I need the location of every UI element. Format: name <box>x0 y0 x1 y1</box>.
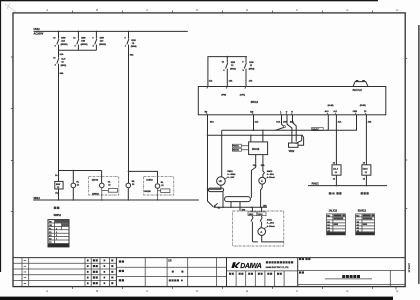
svg-text:1ALX12: 1ALX12 <box>329 210 338 213</box>
svg-text:VR12: VR12 <box>289 151 295 153</box>
mid section columns <box>145 258 216 287</box>
svg-text:52W: 52W <box>249 62 253 64</box>
lamp RL <box>71 183 76 188</box>
contact 52W12B <box>73 31 88 50</box>
svg-text:69A: 69A <box>60 72 64 75</box>
dash box ammeter section <box>233 211 284 246</box>
pointer AM12 <box>265 178 266 179</box>
svg-text:NO: NO <box>356 216 359 218</box>
wire loop2 left down <box>230 202 232 208</box>
wire contact bottoms rail <box>59 49 97 51</box>
rail N241C <box>222 115 357 131</box>
node bus-52W12B <box>78 31 80 33</box>
wire H stub <box>293 115 297 142</box>
svg-text:21A: 21A <box>255 121 259 124</box>
wire branch to box2 <box>129 171 158 183</box>
wire loop1 right down <box>222 192 224 208</box>
svg-text:(1): (1) <box>55 193 58 195</box>
node g3 <box>239 207 241 209</box>
svg-text:(W203): (W203) <box>99 44 106 46</box>
terminal table 52AX12 <box>356 214 375 235</box>
sign cell kanji heads <box>229 273 282 275</box>
svg-text:4–20mA: 4–20mA <box>267 225 275 228</box>
contact 52W12 CF1 <box>242 57 254 87</box>
contact ax2 <box>260 216 262 226</box>
wires tags to ISO12 <box>241 146 248 150</box>
meter FM12 feed <box>221 130 223 176</box>
wire VR12 right hook <box>298 135 304 145</box>
node g5 <box>260 207 262 209</box>
svg-text:P241C: P241C <box>312 182 319 185</box>
svg-text:C: C <box>146 289 148 293</box>
node P241C relay2 <box>366 185 368 187</box>
svg-text:H: H <box>396 289 398 293</box>
wire AM drop <box>253 115 255 131</box>
svg-text:N241C: N241C <box>233 149 240 152</box>
right section label <box>299 258 310 260</box>
wire AL0 drop <box>327 115 329 131</box>
right lower label <box>299 271 304 273</box>
isolator ISO12 <box>249 142 268 155</box>
svg-text:52W12: 52W12 <box>54 215 62 217</box>
node N012 RL2 <box>157 199 159 201</box>
meter AX2L <box>258 228 266 236</box>
grid ticks top <box>73 11 373 13</box>
svg-text:N012B: N012B <box>144 191 151 193</box>
right section divider <box>297 258 299 287</box>
revision table columns <box>22 258 110 287</box>
relay 1ALX12 <box>332 165 341 175</box>
revision table rows <box>13 263 116 280</box>
wire WL to N012 <box>127 188 129 200</box>
drawing title kanji <box>342 275 360 278</box>
svg-text:52W: 52W <box>61 38 65 40</box>
terminal table 1ALX12 <box>327 214 346 235</box>
tag 2801 <box>257 212 266 216</box>
svg-text:52AX12: 52AX12 <box>358 210 367 213</box>
wire coil to N012 <box>58 189 60 200</box>
svg-text:ISO12: ISO12 <box>252 147 260 151</box>
revision date dots <box>104 260 106 285</box>
svg-text:(RUN): (RUN) <box>360 105 366 107</box>
terminal circle L <box>283 126 285 128</box>
svg-text:11A: 11A <box>209 79 213 82</box>
mid stamp dots <box>172 271 184 273</box>
rail ground <box>214 206 267 208</box>
loop jumper 1 <box>208 188 223 192</box>
svg-text:INV12: INV12 <box>251 100 259 104</box>
svg-text:U012: U012 <box>34 27 41 31</box>
inverter INV12 <box>198 87 385 115</box>
grid ticks right <box>405 59 407 209</box>
bus U012 <box>34 30 188 32</box>
dashed box D12 <box>89 177 119 195</box>
node bus-52W12 <box>128 31 130 33</box>
drawing title underline <box>325 278 372 280</box>
node FM12 E0 <box>207 188 209 190</box>
tag 4801 <box>248 212 257 216</box>
svg-text:41A: 41A <box>338 120 342 123</box>
svg-text:(FW): (FW) <box>221 94 226 96</box>
node AL0 rail <box>326 130 328 132</box>
node bus-52W12C <box>96 31 98 33</box>
revision dash marks <box>24 260 27 284</box>
wire 51A run <box>263 155 265 178</box>
pin marks INV top <box>207 87 246 89</box>
svg-text:D: D <box>196 289 198 293</box>
svg-text:(W04): (W04) <box>249 67 255 70</box>
tag P241C iso <box>232 144 241 147</box>
svg-text:(W203): (W203) <box>61 44 68 46</box>
svg-text:P241C: P241C <box>233 145 240 148</box>
svg-text:12B: 12B <box>81 41 85 43</box>
loop jumper 2 <box>225 197 251 202</box>
wiper VR12 <box>295 141 301 144</box>
svg-text:(ALM): (ALM) <box>328 104 334 107</box>
scan edge right <box>418 25 419 284</box>
mid kanji label 1 <box>119 260 124 262</box>
svg-text:12C: 12C <box>100 41 104 43</box>
wire ax into meter <box>260 225 263 228</box>
wire GL drop <box>101 171 103 184</box>
node N012 WL <box>128 199 130 201</box>
tag N241C <box>312 128 324 131</box>
svg-text:AX2L: AX2L <box>267 218 273 221</box>
rail P241C <box>308 185 387 187</box>
label untenchuu <box>361 192 369 194</box>
node E0 rail <box>207 134 209 136</box>
node branch RL <box>73 170 75 172</box>
svg-text:14A: 14A <box>249 79 253 82</box>
svg-text:(W61): (W61) <box>61 65 67 67</box>
contact 52W12 (W04) <box>125 31 137 52</box>
resistor box2 <box>161 189 170 193</box>
lamp GL <box>100 183 105 188</box>
svg-text:52W: 52W <box>56 184 60 186</box>
node g1 <box>222 207 224 209</box>
svg-text:A: A <box>261 179 263 183</box>
contact ALX12 <box>53 50 66 67</box>
company kanji line <box>266 261 293 263</box>
scan edge top <box>0 0 378 1</box>
wire lamp branch rail <box>59 170 102 172</box>
scan edge bottom <box>0 297 393 300</box>
wire meter bottom out <box>262 235 284 242</box>
svg-text:N241C: N241C <box>312 128 319 131</box>
wire ISO pin1 up <box>250 135 252 142</box>
revision dot marks <box>87 260 89 285</box>
node g2 <box>230 207 232 209</box>
label unten <box>54 207 60 210</box>
wire relay1 to P241C <box>335 175 337 185</box>
Daiwa logo mark <box>231 262 240 268</box>
relay 52AX12 <box>362 165 371 175</box>
lamp RL wire <box>72 171 74 201</box>
svg-text:F: F <box>296 289 298 293</box>
wire 10 drop <box>365 115 367 165</box>
svg-text:C: C <box>146 8 148 12</box>
revision kanji marks <box>93 259 98 284</box>
svg-text:AM12: AM12 <box>267 170 273 173</box>
svg-text:NO: NO <box>327 216 330 218</box>
svg-text:12A: 12A <box>61 40 65 43</box>
svg-text:52W: 52W <box>231 62 235 64</box>
svg-text:(W04): (W04) <box>131 45 137 48</box>
svg-text:E: E <box>246 8 248 12</box>
resistor box1 <box>108 189 117 193</box>
wire L diag to rail <box>275 128 283 131</box>
wire AL1 drop <box>335 115 337 165</box>
grid ticks bottom <box>73 287 397 290</box>
svg-text:43A: 43A <box>368 120 372 123</box>
svg-text:0—50Hz: 0—50Hz <box>227 174 235 176</box>
node bus-52W12A <box>58 31 60 33</box>
node N012 coil <box>58 199 60 201</box>
rail N012 <box>33 199 199 201</box>
wire coil drop <box>58 171 60 182</box>
wire WL drop <box>128 52 130 183</box>
title block top <box>13 257 405 259</box>
svg-text:AM: AM <box>250 111 254 114</box>
wire E0 drop <box>208 115 214 207</box>
mid bottom stamp row <box>169 279 183 281</box>
mid section divider <box>115 258 117 287</box>
right bottom line <box>298 283 405 285</box>
coil 52W12 <box>55 181 63 189</box>
pointer AX2L <box>264 227 266 229</box>
meter AM12 <box>259 177 266 184</box>
lamp RL2 <box>155 184 160 189</box>
potentiometer VR12 <box>289 143 299 147</box>
svg-text:FM12: FM12 <box>227 171 233 173</box>
svg-text:52W12: 52W12 <box>92 193 99 195</box>
svg-text:(1)D12: (1)D12 <box>92 180 99 182</box>
wire lamp-resistor <box>102 188 109 200</box>
svg-text:H: H <box>396 8 398 12</box>
svg-text:E: E <box>246 289 248 293</box>
svg-text:D: D <box>196 8 198 12</box>
node ISO pin1 <box>250 134 252 136</box>
svg-text:13A: 13A <box>229 79 233 82</box>
contact 52W12 CF <box>222 57 236 87</box>
scan edge left <box>0 0 1 272</box>
svg-text:1ALX: 1ALX <box>333 167 339 170</box>
svg-text:1AB12: 1AB12 <box>146 179 153 182</box>
svg-text:A: A <box>46 289 48 293</box>
dashed box 1AB12 <box>144 177 174 195</box>
svg-text:15B: 15B <box>263 206 267 208</box>
lamp WL <box>126 183 131 188</box>
svg-text:B: B <box>96 8 98 12</box>
wire L to terminal <box>282 115 284 126</box>
svg-text:NV: NV <box>332 193 336 196</box>
scan noise top-left <box>5 3 16 12</box>
wire FM12 return <box>208 185 221 189</box>
node ISO pin2 <box>262 130 264 132</box>
wire ISO pin2 up <box>262 130 264 142</box>
svg-text:DR: DR <box>168 259 172 262</box>
node WL branch <box>128 171 130 173</box>
node AM rail <box>253 130 255 132</box>
wire FW feed rail <box>208 57 247 87</box>
label INV ijou <box>329 192 342 196</box>
contact 52W12C <box>92 31 106 50</box>
wires rail to tags <box>252 207 261 212</box>
svg-text:13A: 13A <box>253 164 257 167</box>
svg-text:DAIWA: DAIWA <box>240 263 262 270</box>
svg-text:L2312-03: L2312-03 <box>407 263 409 273</box>
sign cells columns <box>236 271 284 287</box>
svg-text:F: F <box>296 8 298 12</box>
wire left branch drop <box>58 67 60 171</box>
svg-text:61A: 61A <box>60 53 64 56</box>
svg-text:52AX: 52AX <box>363 167 369 170</box>
svg-text:(CF1): (CF1) <box>240 94 246 96</box>
svg-text:31A: 31A <box>276 121 280 124</box>
svg-text:(W04): (W04) <box>230 67 236 70</box>
terminal table 52W12 <box>48 220 69 247</box>
right small column <box>389 270 391 286</box>
wire O stub <box>287 115 292 143</box>
tag N241C iso <box>232 148 241 151</box>
rail E0 <box>208 135 302 140</box>
svg-text:52W: 52W <box>131 40 135 42</box>
logo section split <box>227 270 298 272</box>
svg-text:52W: 52W <box>81 38 85 40</box>
svg-text:0—20A: 0—20A <box>267 222 275 225</box>
grid ticks left <box>11 57 13 212</box>
mid kanji label 3 <box>119 279 124 281</box>
ground arrow E0 <box>214 203 218 207</box>
node N012 RL <box>73 199 75 201</box>
svg-text:33A: 33A <box>210 121 214 124</box>
mid section rows <box>116 267 226 276</box>
meter FM12 <box>217 177 226 186</box>
svg-text:52W: 52W <box>100 38 104 40</box>
contact 52W12A <box>53 31 68 50</box>
svg-text:0—20A: 0—20A <box>267 173 275 176</box>
pointer FM12 <box>225 178 227 180</box>
svg-text:A: A <box>46 8 48 12</box>
svg-text:ALX: ALX <box>61 57 66 60</box>
wire AM12 down <box>261 184 263 207</box>
mid kanji label 2 <box>119 270 124 272</box>
svg-text:DAIWA ELECTRIC CO.,LTD.: DAIWA ELECTRIC CO.,LTD. <box>266 266 290 269</box>
svg-text:63A: 63A <box>130 54 134 57</box>
right section split <box>298 269 405 271</box>
pin marks INV bottom <box>206 113 366 115</box>
node FW rail <box>227 56 229 58</box>
contact ax1 <box>251 216 253 226</box>
svg-text:4–20mA: 4–20mA <box>267 176 275 179</box>
node P241C relay1 <box>336 185 338 187</box>
wire 13A run <box>251 155 255 198</box>
connector P24 PLC <box>353 82 368 87</box>
node N012 GL <box>101 199 103 201</box>
svg-text:P24 PLC: P24 PLC <box>353 89 363 92</box>
logo section divider <box>226 258 228 287</box>
wire relay2 to P241C <box>365 175 367 185</box>
wire ax loop left <box>252 226 258 242</box>
svg-text:(W203): (W203) <box>81 44 88 46</box>
node g4 <box>251 207 253 209</box>
wire lamp2-resistor <box>158 188 161 200</box>
wire loop2 mid down <box>239 202 241 211</box>
svg-text:A: A <box>260 230 262 234</box>
revision sign marks <box>111 259 113 284</box>
svg-text:0—10V: 0—10V <box>227 177 235 179</box>
svg-text:AC200V: AC200V <box>34 32 44 36</box>
svg-text:B: B <box>96 289 98 293</box>
